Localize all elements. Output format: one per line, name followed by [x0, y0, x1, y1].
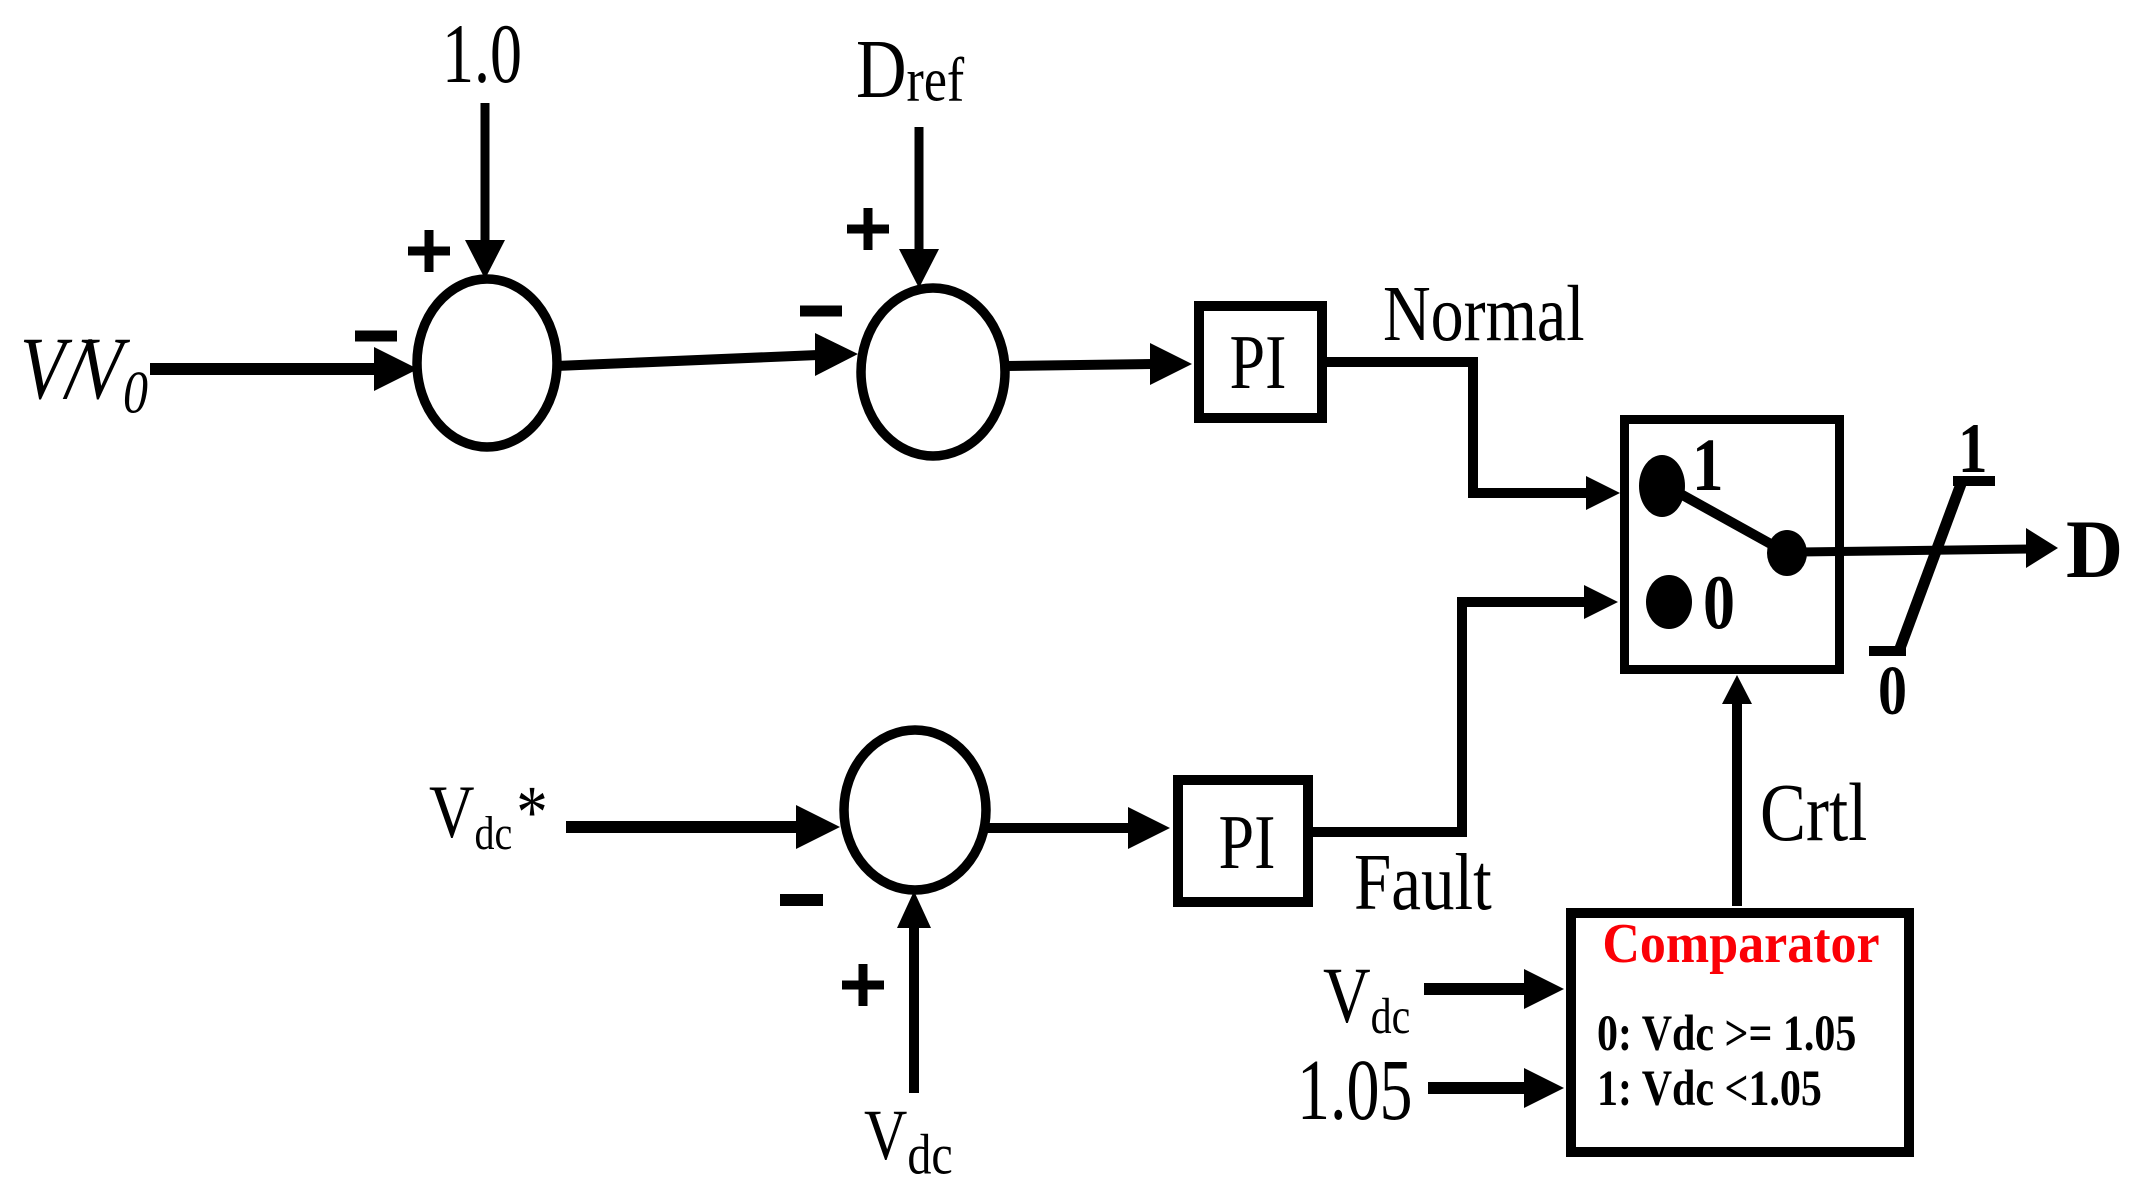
svg-text:1.05: 1.05: [1297, 1041, 1412, 1138]
svg-text:1: Vdc <1.05: 1: Vdc <1.05: [1597, 1062, 1822, 1117]
svg-text:Fault: Fault: [1354, 838, 1492, 927]
svg-text:Normal: Normal: [1383, 269, 1585, 357]
wire arrow 1.05 into comparator: [1428, 1068, 1564, 1108]
plus sign at summer S2 top input: [847, 208, 889, 250]
wire Fault from PI2 to switch input 0: [1313, 585, 1618, 832]
wire arrow switch output to D: [1800, 528, 2058, 568]
PI controller box PI1: [1199, 306, 1322, 418]
wire arrow Dref down into summer S2: [899, 127, 939, 288]
switch contact 1 dot: [1639, 455, 1685, 517]
switch box SW: [1625, 420, 1840, 670]
svg-text:Crtl: Crtl: [1760, 767, 1867, 858]
wire arrow S1 to S2: [556, 333, 858, 376]
wire arrow from 1.0 down into summer S1: [465, 103, 505, 279]
svg-text:PI: PI: [1230, 321, 1287, 406]
svg-text:1: 1: [1692, 424, 1724, 508]
wire arrow V/V0 into S1: [150, 347, 418, 391]
svg-text:D: D: [2066, 503, 2123, 595]
svg-text:1.0: 1.0: [442, 8, 522, 102]
svg-text:0: 0: [1703, 561, 1735, 646]
wire arrow Vdc* into S3: [566, 805, 840, 849]
comparator box: [1571, 913, 1909, 1152]
plus sign at summer S1 top input: [408, 230, 450, 272]
minus sign at summer S2 left input: [800, 306, 842, 317]
switch common dot: [1767, 530, 1807, 576]
summing junction S2: [861, 288, 1005, 456]
svg-text:1: 1: [1958, 410, 1987, 488]
minus sign at S3 left-bottom: [780, 894, 823, 906]
svg-text:0: Vdc >= 1.05: 0: Vdc >= 1.05: [1597, 1007, 1856, 1062]
svg-text:PI: PI: [1219, 801, 1276, 886]
saturation limiter symbol: [1869, 481, 1995, 651]
svg-text:Comparator: Comparator: [1602, 912, 1879, 974]
switch contact 0 dot: [1646, 575, 1692, 629]
wire arrow Vdc up into S3 bottom: [897, 891, 931, 1093]
svg-text:0: 0: [1878, 652, 1907, 729]
wire arrow S3 to PI2: [986, 807, 1170, 849]
switch lever: [1668, 487, 1787, 553]
wire arrow Vdc into comparator: [1424, 969, 1564, 1009]
plus sign at S3 bottom input: [842, 964, 884, 1006]
wire Crtl from comparator up to switch: [1722, 675, 1752, 906]
minus sign at summer S1 left input: [355, 331, 397, 342]
summing junction S1: [417, 279, 557, 447]
wire arrow S2 to PI1: [1005, 343, 1192, 385]
wire Normal from PI1 to switch input 1: [1327, 362, 1620, 510]
PI controller box PI2: [1178, 780, 1308, 902]
summing junction S3: [844, 730, 986, 890]
